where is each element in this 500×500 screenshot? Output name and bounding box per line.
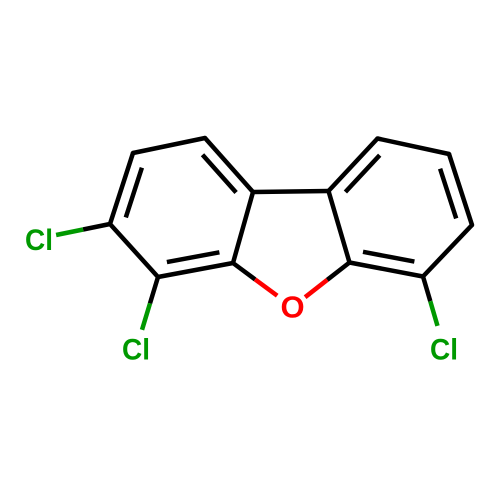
double bond C5a=C6 outer line bbox=[350, 263, 424, 277]
bond C4-Cl carbon half bbox=[150, 277, 158, 303]
bond C4-Cl chlorine half bbox=[142, 303, 150, 329]
double bond C2=C3 outer line bbox=[110, 153, 133, 224]
double bond C1=C9b outer line bbox=[205, 138, 253, 192]
bond C3-C4 (left ring lower-left edge) bbox=[110, 224, 158, 277]
bond C1-C2 (left ring top edge) bbox=[133, 138, 205, 153]
double bond C2=C3 inner line bbox=[126, 168, 142, 218]
bond C4a-O oxygen half bbox=[255, 279, 277, 295]
bond C6-C7 (right ring lower-right edge) bbox=[423, 225, 472, 277]
svg-text:O: O bbox=[281, 290, 305, 325]
bond C4a-O carbon half bbox=[233, 263, 255, 279]
double bond C5a=C6 inner line bbox=[363, 252, 414, 262]
double bond C9=C9a inner line bbox=[345, 155, 379, 192]
double bond C9=C9a outer line bbox=[329, 139, 378, 192]
bond C4a-C9b (furan ring left edge) bbox=[233, 192, 253, 263]
svg-text:Cl: Cl bbox=[430, 334, 458, 367]
svg-text:Cl: Cl bbox=[25, 224, 53, 257]
svg-text:Cl: Cl bbox=[122, 334, 150, 367]
double bond C7=C8 inner line bbox=[440, 169, 456, 219]
ring carbon vertex joints bbox=[203, 136, 208, 141]
bond C6-Cl chlorine half bbox=[430, 301, 437, 326]
bond C9a-C5a (furan ring right edge) bbox=[329, 191, 350, 263]
bond O-C5a carbon half bbox=[327, 263, 349, 280]
bond C6-Cl carbon half bbox=[423, 277, 430, 302]
bond O-C5a oxygen half bbox=[305, 280, 327, 297]
bond C8-C9 (right ring top edge) bbox=[378, 139, 450, 155]
double bond C7=C8 outer line bbox=[449, 154, 472, 225]
double bond C1=C9b inner line bbox=[203, 155, 237, 193]
double bond C4=C4a outer line bbox=[158, 263, 233, 277]
bond C3-Cl chlorine half bbox=[56, 230, 83, 236]
double bond C4=C4a inner line bbox=[167, 252, 220, 262]
bond C9b-C9a (furan ring top edge) bbox=[253, 191, 329, 192]
bond C3-Cl carbon half bbox=[83, 224, 110, 230]
